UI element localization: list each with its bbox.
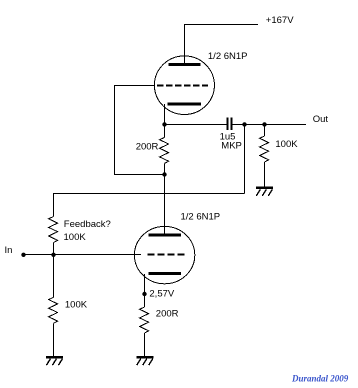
- svg-text:1/2 6N1P: 1/2 6N1P: [208, 51, 248, 62]
- svg-text:Out: Out: [313, 114, 329, 125]
- svg-text:200R: 200R: [156, 308, 179, 319]
- svg-text:100K: 100K: [65, 299, 88, 310]
- svg-text:200R: 200R: [136, 141, 159, 152]
- svg-text:MKP: MKP: [221, 141, 242, 152]
- svg-text:In: In: [5, 245, 13, 256]
- svg-text:2,57V: 2,57V: [149, 288, 174, 299]
- svg-text:Feedback?: Feedback?: [64, 219, 111, 230]
- svg-text:Durandal 2009: Durandal 2009: [291, 374, 349, 384]
- svg-text:100K: 100K: [64, 232, 87, 243]
- svg-text:100K: 100K: [275, 139, 298, 150]
- svg-text:1/2 6N1P: 1/2 6N1P: [181, 211, 221, 222]
- svg-text:+167V: +167V: [266, 15, 294, 26]
